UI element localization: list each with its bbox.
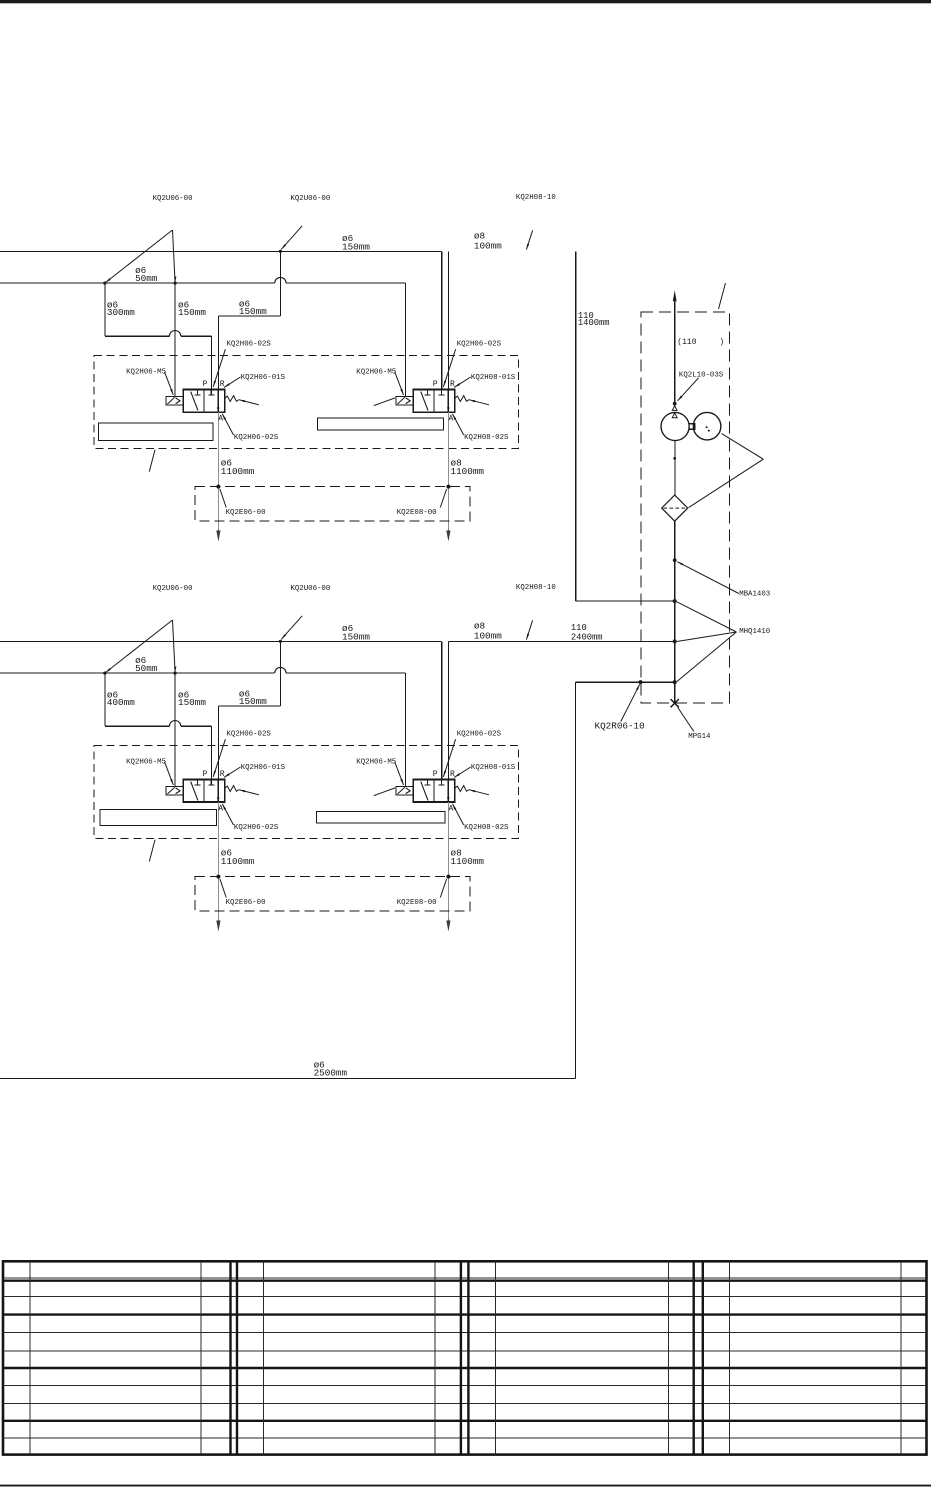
wire: o8 1100mm output from V2 A (circuit 2): [447, 802, 449, 919]
leader: KQ2H08-02S to V2 A fitting (circuit 2): [453, 804, 464, 825]
valve V2B R-to-A passage: [447, 780, 449, 802]
manifold dashed enclosure (circuit 1): [94, 355, 518, 448]
valve V1A solenoid pilot box: [166, 397, 183, 405]
node: junction bottom tee: [673, 680, 677, 684]
output arrow V1 A line (circuit 2): [217, 919, 219, 926]
leader: KQ2L10-03S: [678, 378, 699, 401]
wire: regulator to filter: [674, 441, 676, 496]
wire: branch down from line1 (circuit 2): [279, 641, 281, 706]
leader: KQ2H06-02S to V1 P fitting (circuit 1): [213, 349, 225, 387]
svg-text:150mm: 150mm: [178, 307, 206, 318]
node: union Y junction on line2 at pilot branch (circuit 2): [174, 672, 177, 675]
wire: supply line 2 o6 (circuit 1): [0, 282, 275, 284]
svg-text:R: R: [220, 770, 225, 779]
svg-text:R: R: [450, 380, 455, 389]
node: union Y junction on line2 (o6 50mm) (circuit 2): [103, 672, 106, 675]
svg-text:KQ2E08-00: KQ2E08-00: [397, 899, 437, 907]
svg-text:KQ2H06-02S: KQ2H06-02S: [227, 340, 272, 348]
leader: unlabeled to V2 solenoid (circuit 2): [374, 788, 395, 796]
valve V2B blocked-port symbol (left square): [427, 780, 429, 785]
wire: supply line 2 o6 (circuit 2): [0, 672, 275, 674]
valve V2A blocked-port symbol P (right square): [210, 780, 212, 785]
leader: KQ2H06-01S to V1 R fitting (circuit 2): [224, 767, 241, 777]
node: KQ2R06-10 bulkhead junction: [639, 680, 643, 684]
svg-text:KQ2E06-00: KQ2E06-00: [226, 509, 266, 517]
leader: KQ2H06-M5 to V1 pilot (circuit 1): [165, 372, 174, 395]
leader: air unit reference: [719, 283, 726, 309]
plug MPG14 cross: [671, 699, 679, 707]
svg-text:KQ2H08-10: KQ2H08-10: [516, 584, 556, 592]
svg-text:A: A: [218, 415, 223, 424]
solenoid valve V1A body: [183, 390, 224, 413]
filter diamond: [662, 495, 688, 521]
valve V2A return spring: [225, 786, 239, 792]
top border bar: [0, 0, 931, 3]
solenoid valve V1B body: [413, 390, 454, 413]
svg-text:KQ2U06-00: KQ2U06-00: [153, 585, 193, 593]
valve V1B blocked-port symbol (left square): [427, 390, 429, 395]
svg-text:KQ2U06-00: KQ2U06-00: [290, 585, 330, 593]
valve V2B return spring: [455, 786, 469, 792]
svg-text:1100mm: 1100mm: [221, 856, 255, 867]
KQ2E06/08 dashed enclosure (circuit 2): [195, 877, 470, 911]
valve V1B flow diagonal (left square): [421, 392, 428, 411]
leader: KQ2H06-02S to V1 P fitting (circuit 2): [213, 739, 225, 777]
valve V2B blocked-port symbol P (right square): [440, 780, 442, 785]
valve V1B return spring: [455, 396, 469, 402]
svg-text:R: R: [220, 380, 225, 389]
node: KQ2E06-00 bulkhead junction (circuit 1): [216, 485, 220, 489]
leader: KQ2E08-00 (circuit 2): [440, 879, 446, 898]
node: small junction below regulator: [673, 457, 676, 460]
svg-text:KQ2H06-M5: KQ2H06-M5: [356, 758, 396, 766]
svg-text:KQ2R06-10: KQ2R06-10: [595, 721, 645, 732]
leader: KQ2H06-M5 to V2 pilot (circuit 2): [395, 762, 404, 785]
wire: line1 drop to valve V2 P port (circuit 2): [441, 641, 443, 779]
leader: regulator/gauge twin leader: [722, 434, 764, 460]
valve V1A blocked-port symbol (left square): [197, 390, 199, 395]
leader: KQ2R06-10: [621, 684, 640, 721]
node: union Y KQ2U06-00 junction at line1 (circuit 1): [279, 250, 282, 253]
leader: KQ2H06-02S to V2 P fitting (circuit 2): [443, 739, 455, 777]
output arrow V2 A line (circuit 1): [447, 529, 449, 536]
wire: filter to manifold drops: [674, 521, 676, 703]
leader: MHQ1410 triple leader: [677, 602, 737, 632]
wire: 110 2400mm line from circuit 2 / o8: [448, 640, 674, 642]
gauge connector block: [689, 424, 695, 430]
svg-text:KQ2H06-M5: KQ2H06-M5: [126, 368, 166, 376]
valve V1B spring leader: [469, 400, 489, 405]
svg-text:KQ2H06-02S: KQ2H06-02S: [457, 730, 502, 738]
valve V2A solenoid pilot box: [166, 787, 183, 795]
leader: KQ2H08-10 (circuit 2): [526, 620, 532, 639]
wire: branch o6 300mm down (circuit 2): [104, 673, 106, 726]
air unit dashed enclosure: [641, 312, 729, 703]
leader: KQ2H06-01S to V1 R fitting (circuit 1): [224, 377, 241, 387]
svg-text:2500mm: 2500mm: [314, 1067, 348, 1078]
leader: KQ2H06-02S to V1 A fitting (circuit 2): [222, 804, 233, 825]
node: KQ2E08-00 bulkhead junction (circuit 1): [446, 485, 450, 489]
svg-text:150mm: 150mm: [342, 242, 370, 253]
svg-text:KQ2H06-02S: KQ2H06-02S: [234, 434, 279, 442]
wire: o6 150mm pilot line to valve V2 solenoid (circuit 1): [404, 283, 406, 397]
svg-text:KQ2E06-00: KQ2E06-00: [226, 899, 266, 907]
valve V1B blocked-port symbol P (right square): [440, 390, 442, 395]
wire: run to valve V1 P port with crossover (circuit 2): [105, 725, 170, 727]
wire: o6 150mm pilot line to valve V2 solenoid (circuit 2): [404, 673, 406, 787]
node: KQ2E06-00 bulkhead junction (circuit 2): [216, 875, 220, 879]
valve V2A R-to-A passage: [217, 780, 219, 802]
svg-text:2400mm: 2400mm: [571, 633, 603, 643]
node: union Y junction on line2 (o6 50mm) (circuit 1): [103, 282, 106, 285]
valve V1A spring leader: [239, 400, 259, 405]
leader: KQ2U06-00 #2 (circuit 1): [281, 226, 302, 250]
svg-text:KQ2E08-00: KQ2E08-00: [397, 509, 437, 517]
svg-text:KQ2H08-10: KQ2H08-10: [516, 194, 556, 202]
wire: jog to valve V1 R port (circuit 2): [219, 705, 281, 707]
parts table frame: [3, 1261, 927, 1454]
leader: KQ2E06-00 (circuit 2): [220, 879, 226, 898]
valve V1B R-to-A passage: [447, 390, 449, 412]
leader: MBA1403: [677, 562, 739, 594]
solenoid valve V2A body: [183, 780, 224, 803]
leader: KQ2U06-00 #1 double leader (circuit 2): [105, 620, 173, 673]
wire: jog to valve V1 R port (circuit 1): [219, 315, 281, 317]
actuator block 1 (circuit 2): [100, 809, 216, 825]
svg-text:150mm: 150mm: [342, 632, 370, 643]
node: junction circuit1 feed: [673, 599, 677, 603]
svg-text:KQ2U06-00: KQ2U06-00: [290, 195, 330, 203]
wire: o6 2500mm return line: [576, 681, 675, 683]
svg-text:KQ2H06-01S: KQ2H06-01S: [241, 764, 286, 772]
svg-text:400mm: 400mm: [107, 697, 135, 708]
svg-text:KQ2L10-03S: KQ2L10-03S: [679, 372, 724, 380]
svg-text:100mm: 100mm: [474, 241, 502, 252]
svg-text:KQ2H06-M5: KQ2H06-M5: [126, 758, 166, 766]
solenoid valve V2B body: [413, 780, 454, 803]
svg-text:KQ2H08-02S: KQ2H08-02S: [464, 434, 509, 442]
svg-text:KQ2U06-00: KQ2U06-00: [153, 195, 193, 203]
svg-text:KQ2H08-01S: KQ2H08-01S: [471, 374, 516, 382]
svg-text:KQ2H06-02S: KQ2H06-02S: [227, 730, 272, 738]
node: junction circuit2 feed: [673, 639, 677, 643]
svg-text:110: 110: [571, 623, 587, 633]
svg-text:MPG14: MPG14: [688, 733, 711, 741]
wire: supply line 1 o6 (circuit 1): [0, 250, 442, 252]
valve V1A R-to-A passage: [217, 390, 219, 412]
wire: branch o6 300mm down (circuit 1): [104, 283, 106, 336]
leader: enclosure reference (circuit 1): [149, 450, 155, 472]
svg-text:50mm: 50mm: [135, 663, 158, 674]
leader: unlabeled to V2 solenoid (circuit 1): [374, 398, 395, 406]
check-valve symbol inside regulator: [672, 413, 677, 418]
svg-text:150mm: 150mm: [239, 696, 267, 707]
parts table thick row rules: [3, 1279, 927, 1281]
leader: KQ2H08-01S to V2 R fitting (circuit 2): [454, 767, 471, 777]
wire: supply line 1 o6 (circuit 2): [0, 640, 442, 642]
svg-text:1100mm: 1100mm: [451, 856, 485, 867]
check-valve symbol above regulator: [672, 406, 677, 411]
leader: KQ2H06-02S to V2 P fitting (circuit 1): [443, 349, 455, 387]
KQ2E06/08 dashed enclosure (circuit 1): [195, 487, 470, 521]
parts table thin row rules: [3, 1277, 927, 1279]
valve V2A flow diagonal (left square): [191, 782, 198, 801]
leader: KQ2H08-01S to V2 R fitting (circuit 1): [454, 377, 471, 387]
wire: o6 150mm pilot line to valve V1 solenoid (circuit 2): [174, 673, 176, 787]
bottom rule: [0, 1485, 931, 1487]
svg-text:): ): [719, 338, 724, 347]
wire: run to valve V1 P port with crossover (circuit 1): [105, 335, 170, 337]
manifold dashed enclosure (circuit 2): [94, 745, 518, 838]
svg-text:R: R: [450, 770, 455, 779]
svg-text:150mm: 150mm: [239, 306, 267, 317]
node: union Y junction on line2 at pilot branch (circuit 1): [174, 282, 177, 285]
svg-text:KQ2H06-M5: KQ2H06-M5: [356, 368, 396, 376]
svg-text:P: P: [203, 380, 208, 389]
wire: o6 1100mm output from V1 A (circuit 1): [217, 412, 219, 529]
regulator body circle: [661, 412, 689, 440]
wire: supply riser with flow arrow: [674, 301, 676, 404]
svg-text:P: P: [433, 380, 438, 389]
svg-text:A: A: [449, 805, 454, 814]
svg-text:KQ2H06-02S: KQ2H06-02S: [457, 340, 502, 348]
svg-text:KQ2H06-02S: KQ2H06-02S: [234, 824, 279, 832]
actuator block 2 (circuit 1): [317, 418, 443, 430]
leader: KQ2H08-10 (circuit 1): [526, 230, 532, 249]
valve V1B solenoid pilot box: [396, 397, 413, 405]
actuator block 2 (circuit 2): [317, 811, 446, 823]
actuator block 1 (circuit 1): [99, 423, 214, 441]
valve V2B solenoid pilot box: [396, 787, 413, 795]
node: KQ2L10-03S elbow junction: [673, 402, 677, 406]
pressure gauge circle: [693, 412, 721, 440]
node: MBA1403 junction: [673, 558, 677, 562]
leader: KQ2H06-02S to V1 A fitting (circuit 1): [222, 414, 233, 435]
wire: o8 1100mm output from V2 A (circuit 1): [447, 412, 449, 529]
node: union Y KQ2U06-00 junction at line1 (circuit 2): [279, 640, 282, 643]
valve V1A blocked-port symbol P (right square): [210, 390, 212, 395]
svg-text:1400mm: 1400mm: [578, 318, 610, 328]
node: KQ2E08-00 bulkhead junction (circuit 2): [446, 875, 450, 879]
leader: KQ2H06-M5 to V1 pilot (circuit 2): [165, 762, 174, 785]
leader: enclosure reference (circuit 2): [149, 840, 155, 862]
svg-text:P: P: [433, 770, 438, 779]
wire: 110 1400mm drop from circuit 1: [575, 251, 577, 601]
valve V2B flow diagonal (left square): [421, 782, 428, 801]
svg-text:P: P: [203, 770, 208, 779]
svg-text:KQ2H06-01S: KQ2H06-01S: [241, 374, 286, 382]
svg-text:A: A: [449, 415, 454, 424]
svg-text:MHQ1410: MHQ1410: [739, 628, 770, 636]
svg-text:KQ2H08-01S: KQ2H08-01S: [471, 764, 516, 772]
svg-text:300mm: 300mm: [107, 307, 135, 318]
leader: KQ2U06-00 #1 double leader (circuit 1): [105, 230, 173, 283]
leader: KQ2H08-02S to V2 A fitting (circuit 1): [453, 414, 464, 435]
svg-text:50mm: 50mm: [135, 273, 158, 284]
gauge needle marks: [706, 426, 708, 428]
wire: line1 drop to valve V2 P port (circuit 1): [441, 251, 443, 389]
valve V2A blocked-port symbol (left square): [197, 780, 199, 785]
leader: KQ2E08-00 (circuit 1): [440, 489, 446, 508]
wire: o8 100mm line to valve V2 R port (circuit 2): [447, 641, 449, 779]
wire: o6 150mm pilot line to valve V1 solenoid (circuit 1): [174, 283, 176, 397]
wire: o8 100mm line to valve V2 R port (circuit 1): [447, 251, 449, 389]
svg-text:KQ2H08-02S: KQ2H08-02S: [464, 824, 509, 832]
leader: KQ2H06-M5 to V2 pilot (circuit 1): [395, 372, 404, 395]
svg-text:(110: (110: [677, 338, 696, 347]
svg-text:100mm: 100mm: [474, 631, 502, 642]
leader: KQ2U06-00 #2 (circuit 2): [281, 616, 302, 640]
leader: MPG14: [678, 708, 694, 732]
svg-text:A: A: [218, 805, 223, 814]
valve V2A spring leader: [239, 790, 259, 795]
output arrow V2 A line (circuit 2): [447, 919, 449, 926]
parts table group separators and column rules: [229, 1261, 231, 1454]
output arrow V1 A line (circuit 1): [217, 529, 219, 536]
svg-text:MBA1403: MBA1403: [739, 591, 770, 599]
svg-text:1100mm: 1100mm: [451, 466, 485, 477]
valve V1A flow diagonal (left square): [191, 392, 198, 411]
wire: branch down from line1 (circuit 1): [279, 251, 281, 316]
valve V1A return spring: [225, 396, 239, 402]
valve V2B spring leader: [469, 790, 489, 795]
leader: KQ2E06-00 (circuit 1): [220, 489, 226, 508]
wire: o6 1100mm output from V1 A (circuit 2): [217, 802, 219, 919]
svg-text:150mm: 150mm: [178, 697, 206, 708]
svg-text:1100mm: 1100mm: [221, 466, 255, 477]
